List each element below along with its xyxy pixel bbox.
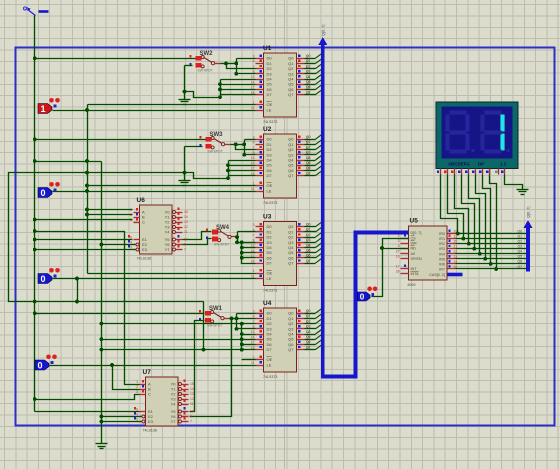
- bus arrow: [318, 37, 327, 45]
- svg-text:Q5: Q5: [306, 80, 311, 84]
- svg-text:SW-SPDT: SW-SPDT: [198, 69, 213, 73]
- ground under switch: [185, 146, 203, 148]
- svg-text:13: 13: [251, 330, 255, 334]
- svg-text:IR7: IR7: [439, 267, 445, 271]
- svg-text:Q0: Q0: [306, 223, 311, 227]
- svg-text:Q0: Q0: [517, 229, 522, 233]
- svg-text:Q5: Q5: [517, 255, 522, 259]
- wire U7 E2: [102, 416, 142, 418]
- wire U6 Y5 to SW4 top contact: [183, 232, 212, 240]
- bus right vertical: [526, 225, 530, 272]
- svg-text:Q4: Q4: [306, 330, 311, 334]
- wire U6 E2: [102, 244, 136, 246]
- wire U2 OE: [88, 185, 256, 187]
- svg-text:Q3: Q3: [306, 238, 311, 242]
- wire U6 A: [88, 209, 133, 211]
- IR net wires to bus: [456, 233, 527, 235]
- svg-text:1 2: 1 2: [500, 162, 507, 167]
- svg-text:Q7: Q7: [306, 259, 311, 263]
- svg-text:0: 0: [37, 361, 42, 371]
- wire U6 B: [88, 214, 133, 216]
- wire rail A tap 161 to x101: [35, 161, 102, 163]
- svg-text:17: 17: [396, 265, 400, 269]
- wire rail A to SW3: [35, 139, 206, 141]
- svg-text:INTA: INTA: [411, 272, 420, 276]
- svg-text:13: 13: [184, 220, 188, 224]
- svg-text:IR3: IR3: [439, 247, 445, 251]
- wire U4 D2 long feed: [102, 323, 232, 325]
- display pins: [440, 169, 442, 175]
- svg-text:D7: D7: [267, 173, 273, 178]
- svg-text:Q6: Q6: [306, 85, 311, 89]
- wires U2 Q0-Q7 to bus: [305, 139, 316, 141]
- svg-text:Q[0..7]: Q[0..7]: [527, 207, 531, 218]
- wire mesh to latch D pins: [234, 143, 238, 147]
- rail A vertical: [34, 59, 36, 412]
- svg-text:Q7: Q7: [288, 261, 294, 266]
- wire mesh to latch D pins: [224, 62, 228, 66]
- svg-text:IR4: IR4: [439, 252, 445, 256]
- svg-text:SW-SPDT: SW-SPDT: [207, 324, 222, 328]
- svg-text:3: 3: [253, 54, 255, 58]
- svg-text:WR: WR: [411, 242, 417, 246]
- svg-text:Q2: Q2: [306, 233, 311, 237]
- svg-text:12: 12: [184, 225, 188, 229]
- svg-text:7: 7: [253, 233, 255, 237]
- svg-text:Y7: Y7: [171, 419, 177, 424]
- wire U6 C from rail A: [35, 219, 133, 221]
- svg-text:2: 2: [398, 239, 400, 243]
- svg-text:E3: E3: [148, 419, 154, 424]
- svg-text:13: 13: [251, 75, 255, 79]
- wires U4 Q0-Q7 to bus: [305, 313, 316, 315]
- svg-text:DP: DP: [478, 162, 484, 167]
- bus Q[0..7] main: [323, 41, 408, 377]
- svg-text:Q6: Q6: [306, 166, 311, 170]
- svg-text:CS: CS: [411, 237, 417, 241]
- wire state 0 to U3 LE: [53, 278, 256, 280]
- svg-text:Q7: Q7: [306, 90, 311, 94]
- wire U1 OE from left: [88, 104, 256, 106]
- wire rail A tap 231 to U7 A feed: [35, 232, 140, 385]
- svg-text:LE: LE: [267, 363, 272, 368]
- svg-text:Q6: Q6: [306, 340, 311, 344]
- svg-text:Q1: Q1: [306, 228, 311, 232]
- wire state 1 to U1 LE: [53, 110, 256, 112]
- svg-text:Q7: Q7: [306, 345, 311, 349]
- svg-text:13: 13: [190, 392, 194, 396]
- svg-text:3: 3: [398, 244, 400, 248]
- svg-text:IR5: IR5: [439, 257, 445, 261]
- wire mesh to latch D pins: [235, 235, 239, 239]
- wires U1 Q0-Q7 to bus: [305, 58, 316, 60]
- svg-text:Q7: Q7: [288, 173, 294, 178]
- svg-text:Q5: Q5: [306, 249, 311, 253]
- svg-text:0: 0: [40, 274, 45, 284]
- svg-text:Q1: Q1: [517, 234, 522, 238]
- svg-text:D7: D7: [267, 92, 273, 97]
- svg-text:74LS138: 74LS138: [137, 257, 151, 261]
- svg-text:RD: RD: [411, 247, 417, 251]
- svg-text:3: 3: [130, 218, 132, 222]
- svg-text:4: 4: [253, 141, 255, 145]
- svg-text:3: 3: [253, 223, 255, 227]
- svg-text:Y4: Y4: [165, 230, 171, 235]
- svg-text:7: 7: [184, 247, 186, 251]
- svg-text:0: 0: [40, 188, 45, 198]
- svg-text:1: 1: [136, 380, 138, 384]
- ground center bottom: [96, 443, 108, 445]
- svg-text:Q2: Q2: [517, 239, 522, 243]
- svg-text:9: 9: [184, 242, 186, 246]
- svg-text:0: 0: [360, 293, 365, 302]
- svg-text:2: 2: [130, 213, 132, 217]
- svg-text:Y4: Y4: [171, 402, 177, 407]
- svg-text:10: 10: [190, 409, 194, 413]
- svg-text:14: 14: [184, 215, 188, 219]
- logic state 0: [38, 188, 52, 198]
- wire U7 E3: [102, 421, 142, 423]
- wire rail A to SW2: [35, 58, 196, 60]
- svg-text:Q5: Q5: [306, 335, 311, 339]
- svg-text:SP/EN: SP/EN: [411, 257, 422, 261]
- svg-text:11: 11: [251, 187, 255, 191]
- wire state 0 to U4 LE: [50, 365, 256, 367]
- svg-text:Q5: Q5: [306, 161, 311, 165]
- svg-text:Q0: Q0: [306, 309, 311, 313]
- wire U6 Y6 to SW4 bottom contact: [183, 239, 212, 245]
- svg-text:7: 7: [190, 419, 192, 423]
- svg-text:Q4: Q4: [306, 156, 311, 160]
- svg-text:OE: OE: [267, 183, 273, 188]
- svg-text:1: 1: [40, 104, 45, 114]
- svg-text:Q7: Q7: [288, 92, 294, 97]
- svg-text:Q7: Q7: [288, 347, 294, 352]
- svg-text:SW-SPDT: SW-SPDT: [214, 242, 229, 246]
- svg-text:11: 11: [184, 230, 188, 234]
- svg-text:IR0: IR0: [439, 232, 445, 236]
- wire U4 OE: [242, 359, 256, 361]
- svg-text:IR1: IR1: [439, 237, 445, 241]
- wire U7 Y5 to SW1 bottom contact: [190, 321, 205, 412]
- svg-text:Y7: Y7: [165, 247, 171, 252]
- schematic border frame: [16, 48, 555, 426]
- logic state 1: [38, 104, 52, 114]
- svg-text:Q2: Q2: [306, 145, 311, 149]
- svg-text:11: 11: [251, 361, 255, 365]
- svg-text:14: 14: [190, 387, 194, 391]
- svg-text:Q2: Q2: [306, 319, 311, 323]
- svg-text:8259: 8259: [408, 283, 416, 287]
- ground at display: [505, 175, 523, 190]
- svg-text:27: 27: [396, 250, 400, 254]
- logic state 0: [35, 360, 49, 370]
- svg-text:LE: LE: [267, 276, 272, 281]
- svg-text:SW-SPDT: SW-SPDT: [208, 150, 223, 154]
- vertical x77: [77, 279, 79, 302]
- svg-text:E3: E3: [142, 247, 148, 252]
- wire toggle to rail A: [34, 16, 36, 59]
- svg-text:C: C: [142, 220, 145, 225]
- wire U7 E1 from rail A: [35, 411, 140, 413]
- svg-text:2: 2: [136, 385, 138, 389]
- logic state 0: [358, 292, 371, 301]
- wire mesh to latch D pins: [230, 317, 234, 321]
- bus arrow right: [524, 220, 533, 228]
- svg-text:14: 14: [251, 80, 255, 84]
- svg-text:Q3: Q3: [306, 70, 311, 74]
- svg-text:U4: U4: [263, 300, 272, 307]
- svg-text:U7: U7: [143, 369, 152, 376]
- svg-text:Q1: Q1: [306, 314, 311, 318]
- svg-text:LE: LE: [267, 189, 272, 194]
- svg-text:INT: INT: [411, 267, 418, 271]
- svg-text:4: 4: [253, 60, 255, 64]
- svg-text:Q3: Q3: [517, 245, 522, 249]
- svg-text:Q7: Q7: [517, 265, 522, 269]
- svg-text:Q4: Q4: [306, 243, 311, 247]
- svg-text:U6: U6: [137, 197, 146, 204]
- svg-text:D[0..7]: D[0..7]: [411, 231, 422, 235]
- svg-text:Q0: Q0: [306, 135, 311, 139]
- svg-text:3: 3: [253, 309, 255, 313]
- svg-text:LE: LE: [267, 108, 272, 113]
- svg-text:A0: A0: [411, 252, 416, 256]
- svg-text:Q7: Q7: [306, 171, 311, 175]
- center vertical to ground: [101, 162, 103, 444]
- wire U7 C from rail A: [35, 395, 140, 400]
- svg-text:9: 9: [190, 414, 192, 418]
- svg-text:74LS373: 74LS373: [263, 375, 277, 379]
- svg-text:OE: OE: [267, 357, 273, 362]
- wire U6 E1 from rail A: [35, 239, 133, 241]
- bus CAS[0..2] stub: [448, 273, 463, 277]
- svg-text:14: 14: [251, 335, 255, 339]
- wires U3 Q0-Q7 to bus: [305, 226, 316, 228]
- svg-text:Q2: Q2: [306, 64, 311, 68]
- svg-text:18: 18: [251, 259, 255, 263]
- wire U7 B feed from LE4: [113, 366, 140, 390]
- logic state 0: [38, 274, 52, 284]
- 7-segment display: [436, 102, 518, 169]
- wire U6 E3 from rail A: [35, 249, 136, 251]
- wire U3 OE: [88, 273, 256, 275]
- wires display segments to U5 IR: [441, 175, 458, 234]
- wire U4 D7 long feed: [102, 349, 242, 351]
- svg-text:74LS373: 74LS373: [263, 120, 277, 124]
- svg-text:Q4: Q4: [517, 250, 522, 254]
- svg-text:U3: U3: [263, 214, 272, 221]
- svg-text:Q6: Q6: [517, 260, 522, 264]
- svg-text:Q6: Q6: [306, 254, 311, 258]
- svg-text:26: 26: [396, 270, 400, 274]
- svg-text:IR2: IR2: [439, 242, 445, 246]
- wire U7 Y6 to SW1 junction: [190, 319, 232, 417]
- svg-text:11: 11: [251, 106, 255, 110]
- svg-text:U2: U2: [263, 126, 272, 133]
- ground under switch: [185, 65, 193, 67]
- svg-text:11: 11: [190, 402, 194, 406]
- svg-text:3: 3: [136, 390, 138, 394]
- svg-text:3: 3: [253, 135, 255, 139]
- svg-text:15: 15: [190, 382, 194, 386]
- svg-text:Q1: Q1: [306, 59, 311, 63]
- left vertical V1: [87, 105, 89, 274]
- svg-text:CAS[0..2]: CAS[0..2]: [429, 273, 445, 277]
- svg-text:C: C: [148, 392, 151, 397]
- wire U4 D5 long feed: [102, 339, 242, 341]
- svg-text:15: 15: [184, 210, 188, 214]
- svg-text:12: 12: [190, 397, 194, 401]
- svg-text:Q1: Q1: [306, 140, 311, 144]
- rail B vertical: [9, 173, 204, 302]
- svg-text:IR6: IR6: [439, 262, 445, 266]
- svg-text:U5: U5: [410, 218, 419, 225]
- svg-text:16: 16: [396, 255, 400, 259]
- wire rail A to SW1: [35, 313, 205, 315]
- svg-text:74LS373: 74LS373: [263, 289, 277, 293]
- svg-text:Q3: Q3: [306, 151, 311, 155]
- svg-text:74LS373: 74LS373: [263, 201, 277, 205]
- vertical x203 down: [203, 302, 205, 350]
- svg-text:74LS138: 74LS138: [143, 429, 157, 433]
- svg-text:1: 1: [253, 269, 255, 273]
- wire state to U5 RD/WR: [372, 239, 409, 297]
- svg-text:1: 1: [398, 234, 400, 238]
- svg-text:Q[0..7]: Q[0..7]: [322, 25, 326, 36]
- svg-text:OE: OE: [267, 271, 273, 276]
- svg-text:ABCDEFG: ABCDEFG: [448, 162, 470, 167]
- svg-text:D7: D7: [267, 347, 273, 352]
- svg-text:1: 1: [130, 208, 132, 212]
- svg-text:10: 10: [184, 237, 188, 241]
- svg-text:13: 13: [251, 156, 255, 160]
- wire state 0 to U2 LE: [53, 191, 256, 193]
- svg-text:D7: D7: [267, 261, 273, 266]
- svg-text:14: 14: [251, 161, 255, 165]
- svg-text:Q3: Q3: [306, 325, 311, 329]
- svg-text:U1: U1: [263, 45, 272, 52]
- svg-text:Q0: Q0: [306, 54, 311, 58]
- svg-text:Q4: Q4: [306, 75, 311, 79]
- svg-text:OE: OE: [267, 102, 273, 107]
